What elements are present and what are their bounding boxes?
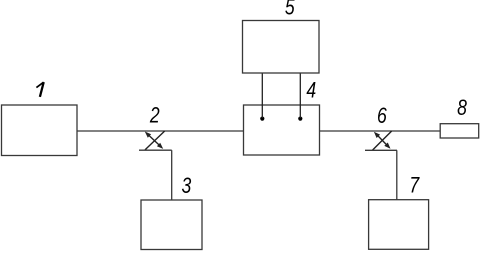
plain diagonal — [373, 131, 392, 150]
block 5 — [243, 21, 320, 74]
svg-text:7: 7 — [409, 174, 420, 198]
svg-text:2: 2 — [149, 104, 160, 128]
svg-text:5: 5 — [285, 0, 296, 20]
valve 6 bottom line — [365, 149, 397, 151]
arrowhead down-right — [384, 143, 390, 149]
svg-text:3: 3 — [182, 174, 192, 198]
double-headed arrow shaft — [149, 135, 160, 145]
plain diagonal — [145, 131, 165, 150]
valve 2 crossed-arrow throttle symbol — [139, 131, 172, 150]
block 1 — [2, 105, 78, 156]
node dot left in block 4 — [260, 117, 264, 121]
svg-text:4: 4 — [306, 79, 316, 103]
arrowhead down-right — [157, 143, 163, 149]
valve 6 crossed-arrow throttle symbol — [365, 131, 397, 150]
arrowhead up-left — [374, 132, 380, 138]
block 4 (central) — [244, 105, 320, 155]
svg-text:6: 6 — [377, 104, 388, 128]
svg-text:8: 8 — [457, 96, 467, 120]
label 1 — [36, 82, 43, 97]
node dot right in block 4 — [298, 117, 302, 121]
wire block5 to left dot — [261, 73, 263, 118]
double-headed arrow shaft — [378, 135, 387, 145]
wire block1 to block4 — [77, 130, 244, 132]
valve 2 bottom line — [139, 149, 172, 151]
block 8 (sensor) — [440, 124, 479, 138]
wire valve6 down to block7 — [396, 150, 398, 199]
arrowhead up-left — [145, 132, 151, 138]
wire valve2 down to block3 — [171, 150, 173, 200]
block 7 — [369, 200, 429, 250]
wire block4 to block8 — [320, 130, 441, 132]
wire block5 to right dot — [299, 73, 301, 118]
block 3 — [141, 200, 202, 250]
